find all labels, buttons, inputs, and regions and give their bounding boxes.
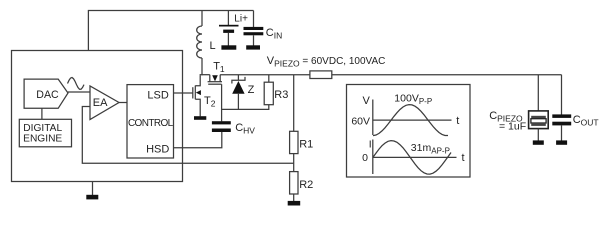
svg-text:HSD: HSD bbox=[146, 144, 169, 156]
svg-text:V: V bbox=[363, 95, 371, 107]
svg-text:CIN: CIN bbox=[266, 27, 282, 41]
svg-text:I: I bbox=[369, 139, 372, 151]
svg-text:CHV: CHV bbox=[235, 122, 255, 136]
svg-text:DAC: DAC bbox=[36, 89, 59, 101]
svg-text:L: L bbox=[210, 40, 216, 52]
svg-text:VPIEZO = 60VDC, 100VAC: VPIEZO = 60VDC, 100VAC bbox=[267, 55, 386, 69]
svg-text:60V: 60V bbox=[351, 115, 370, 127]
svg-text:Li+: Li+ bbox=[234, 14, 248, 25]
svg-text:0: 0 bbox=[362, 152, 368, 164]
svg-text:ENGINE: ENGINE bbox=[23, 133, 62, 144]
svg-text:LSD: LSD bbox=[147, 90, 168, 102]
svg-text:T1: T1 bbox=[213, 61, 225, 75]
svg-text:R1: R1 bbox=[299, 139, 313, 151]
svg-text:DIGITAL: DIGITAL bbox=[23, 123, 62, 134]
svg-text:Z: Z bbox=[248, 84, 255, 96]
svg-text:EA: EA bbox=[93, 97, 108, 109]
svg-text:R2: R2 bbox=[299, 179, 313, 191]
svg-text:t: t bbox=[456, 115, 459, 127]
svg-text:COUT: COUT bbox=[573, 114, 599, 128]
svg-text:CONTROL: CONTROL bbox=[128, 118, 174, 129]
svg-text:= 1uF: = 1uF bbox=[499, 121, 526, 133]
svg-text:T2: T2 bbox=[204, 95, 216, 109]
svg-text:t: t bbox=[462, 152, 465, 164]
svg-text:R3: R3 bbox=[274, 89, 288, 101]
